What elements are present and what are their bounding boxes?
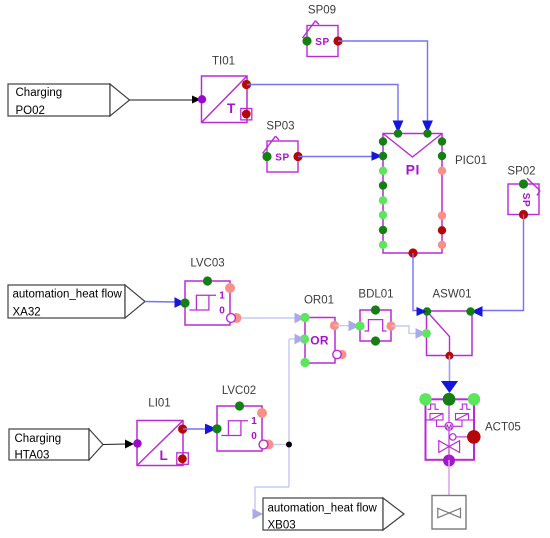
svg-text:SP: SP [275,153,290,164]
small circle [450,434,456,440]
wire LVC03 to OR01 [242,313,306,324]
svg-text:0: 0 [219,306,225,317]
svg-text:ACT05: ACT05 [485,422,521,434]
wire ACT05 to valve [448,460,450,496]
svg-text:XA32: XA32 [13,307,41,319]
svg-text:SP02: SP02 [507,166,535,178]
level transmitter LI01 [133,398,188,466]
svg-text:L: L [160,448,168,463]
pulse block BDL01 [355,289,395,346]
svg-text:PO02: PO02 [16,105,45,117]
svg-text:TI01: TI01 [212,56,235,68]
svg-text:LI01: LI01 [148,398,170,410]
blue arrow into ASW01 left input [417,307,428,316]
svg-text:0: 0 [251,431,257,442]
svg-text:1: 1 [219,291,225,302]
wire PO02 to TI01 [130,96,202,104]
svg-text:Charging: Charging [16,87,63,99]
wire LI01 to LVC02 [183,424,217,435]
svg-text:LVC02: LVC02 [222,385,256,397]
transmitter TI01 [198,56,252,123]
connectors to motor [437,420,445,426]
PI controller PIC01 [379,129,487,257]
svg-text:BDL01: BDL01 [358,289,393,301]
limit value check LVC03 [180,258,241,326]
setpoint SP09 [302,5,342,57]
svg-text:automation_heat flow: automation_heat flow [13,289,123,301]
svg-text:PIC01: PIC01 [455,155,487,167]
svg-text:1: 1 [251,416,257,427]
node junction [286,442,292,448]
wire SP03 to PIC01 [298,151,383,160]
setpoint SP03 [262,121,302,173]
wire HTA03 to LI01 [103,440,134,449]
wire PIC01 to ASW01 [413,253,417,311]
tag automation_heat flow XA32 [8,285,145,319]
svg-text:OR: OR [310,333,329,347]
analog switch ASW01 [422,288,475,359]
svg-text:SP: SP [520,193,531,208]
wire LVC02 to junction [274,444,290,446]
wire SP02 to ASW01 [471,215,524,317]
svg-text:SP: SP [315,37,330,48]
or gate OR01 [300,295,347,368]
inner pulse glyph left [428,404,439,409]
wire ASW01 to ACT05 [441,356,458,394]
svg-text:automation_heat flow: automation_heat flow [268,503,378,515]
wire junction to OR01 middle input [289,334,305,487]
inner pulse glyph right [460,404,471,409]
wire OR01 to BDL01 [335,320,361,331]
wire junction to XB03 [253,487,290,519]
svg-text:PI: PI [406,162,420,178]
valve bowtie [439,441,449,453]
svg-text:Charging: Charging [15,433,62,445]
svg-text:SP09: SP09 [308,5,336,17]
svg-text:ASW01: ASW01 [433,288,472,300]
svg-text:T: T [227,101,236,116]
motor M [445,422,453,430]
actuator ACT05 [419,393,520,467]
svg-text:XB03: XB03 [268,520,296,532]
tag automation_heat flow XB03 [263,498,404,532]
wire SP09 to PIC01 [338,41,433,133]
inner box right [456,414,469,421]
svg-text:OR01: OR01 [304,295,334,307]
inner box left [430,414,443,421]
wire XA32 to LVC03 [145,297,185,308]
setpoint SP02 [507,166,540,220]
tag Charging HTA03 [9,429,103,462]
svg-text:SP03: SP03 [266,121,294,133]
svg-text:HTA03: HTA03 [15,450,50,462]
svg-text:LVC03: LVC03 [190,258,224,270]
wire TI01 to PIC01 [247,85,403,134]
valve symbol box [432,496,466,530]
tag Charging PO02 [8,84,130,117]
limit value check LVC02 [212,385,273,451]
svg-text:M: M [446,422,452,431]
wire BDL01 to ASW01 [391,326,427,339]
